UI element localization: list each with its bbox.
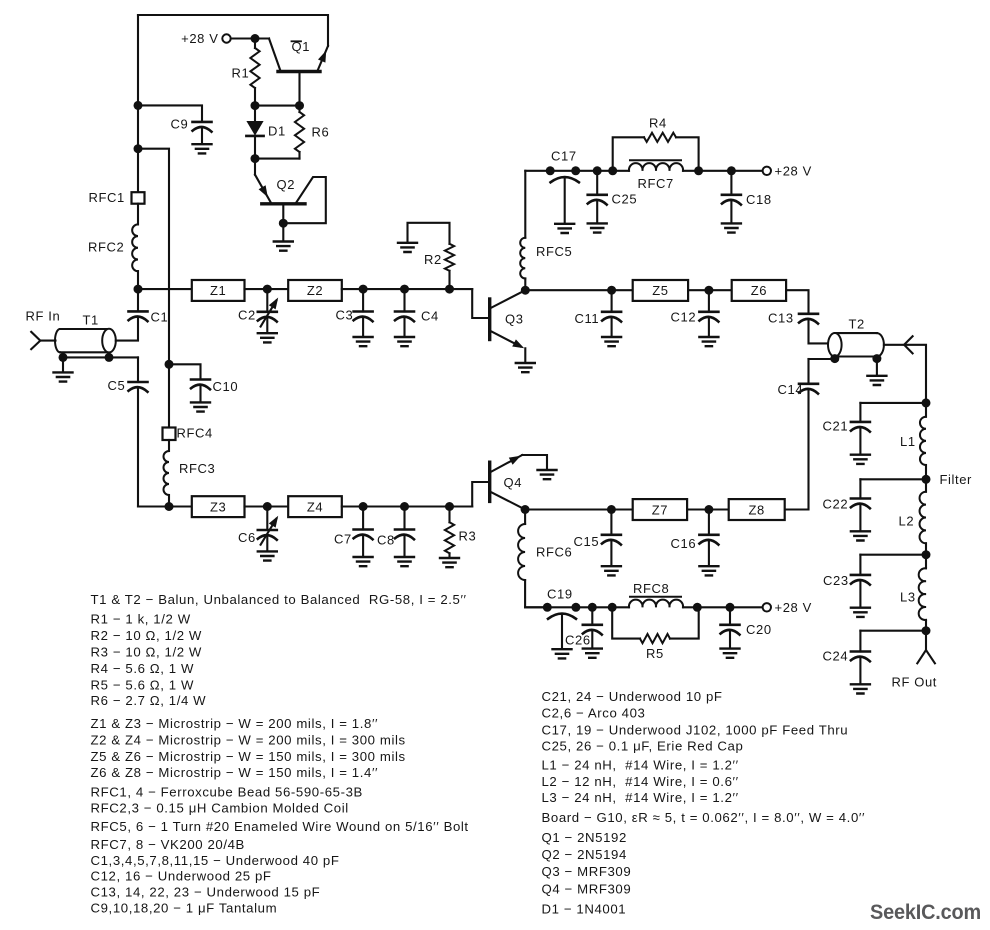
svg-text:C4: C4 xyxy=(421,309,439,324)
svg-text:C26: C26 xyxy=(565,633,591,648)
svg-text:L2: L2 xyxy=(899,514,915,529)
svg-text:Z5: Z5 xyxy=(652,283,668,298)
svg-text:Q4: Q4 xyxy=(504,475,523,490)
svg-text:L3 − 24 nH, #14 Wire, I = 1.2: L3 − 24 nH, #14 Wire, I = 1.2′′ xyxy=(542,790,739,805)
svg-text:Z6 & Z8 − Microstrip − W = 150: Z6 & Z8 − Microstrip − W = 150 mils, I =… xyxy=(91,765,379,780)
svg-text:Z5 & Z6 − Microstrip − W = 150: Z5 & Z6 − Microstrip − W = 150 mils, I =… xyxy=(91,749,406,764)
svg-text:+28 V: +28 V xyxy=(775,164,812,179)
svg-text:RFC3: RFC3 xyxy=(179,461,215,476)
svg-text:R5: R5 xyxy=(646,646,664,661)
svg-text:C11: C11 xyxy=(575,311,600,326)
svg-text:RFC1: RFC1 xyxy=(89,190,125,205)
svg-text:C20: C20 xyxy=(746,622,772,637)
svg-text:R4: R4 xyxy=(649,116,667,131)
svg-text:C9,10,18,20 − 1 μF Tantalum: C9,10,18,20 − 1 μF Tantalum xyxy=(91,901,278,916)
svg-text:L1 − 24 nH, #14 Wire, I = 1.2: L1 − 24 nH, #14 Wire, I = 1.2′′ xyxy=(542,758,739,773)
svg-text:R5 − 5.6 Ω, 1 W: R5 − 5.6 Ω, 1 W xyxy=(91,677,195,692)
svg-text:C5: C5 xyxy=(108,378,126,393)
svg-text:Q2 − 2N5194: Q2 − 2N5194 xyxy=(542,847,627,862)
svg-text:R2: R2 xyxy=(424,252,442,267)
svg-text:Z2 & Z4 − Microstrip − W = 200: Z2 & Z4 − Microstrip − W = 200 mils, I =… xyxy=(91,733,406,748)
svg-text:C10: C10 xyxy=(213,379,239,394)
svg-text:RF Out: RF Out xyxy=(892,675,938,690)
svg-text:C24: C24 xyxy=(823,649,849,664)
svg-text:C23: C23 xyxy=(823,573,849,588)
svg-text:L1: L1 xyxy=(900,434,916,449)
svg-text:D1: D1 xyxy=(268,124,286,139)
svg-text:R1 − 1 k, 1/2 W: R1 − 1 k, 1/2 W xyxy=(91,611,191,626)
svg-text:Z8: Z8 xyxy=(749,502,765,517)
svg-text:R2 − 10 Ω, 1/2 W: R2 − 10 Ω, 1/2 W xyxy=(91,628,202,643)
svg-text:C2: C2 xyxy=(238,308,256,323)
svg-text:L2 − 12 nH, #14 Wire, I = 0.6: L2 − 12 nH, #14 Wire, I = 0.6′′ xyxy=(542,774,739,789)
svg-text:C6: C6 xyxy=(238,530,256,545)
svg-text:Z1 & Z3 − Microstrip − W = 200: Z1 & Z3 − Microstrip − W = 200 mils, I =… xyxy=(91,716,379,731)
svg-text:T1: T1 xyxy=(83,313,99,328)
svg-text:D1 − 1N4001: D1 − 1N4001 xyxy=(542,901,627,916)
svg-text:C7: C7 xyxy=(334,532,352,547)
svg-text:C3: C3 xyxy=(336,308,354,323)
svg-text:Z4: Z4 xyxy=(307,499,323,514)
svg-text:C19: C19 xyxy=(547,587,573,602)
svg-text:T2: T2 xyxy=(849,317,865,332)
svg-text:R6: R6 xyxy=(312,125,330,140)
svg-text:C2,6 − Arco 403: C2,6 − Arco 403 xyxy=(542,706,646,721)
svg-text:C17, 19 − Underwood J102, 1000: C17, 19 − Underwood J102, 1000 pF Feed T… xyxy=(542,722,849,737)
svg-text:R3 − 10 Ω, 1/2 W: R3 − 10 Ω, 1/2 W xyxy=(91,644,202,659)
svg-text:R4 − 5.6 Ω, 1 W: R4 − 5.6 Ω, 1 W xyxy=(91,661,195,676)
svg-text:RFC1, 4 − Ferroxcube Bead 56-5: RFC1, 4 − Ferroxcube Bead 56-590-65-3B xyxy=(91,785,363,800)
svg-text:C13, 14, 22, 23 − Underwood 15: C13, 14, 22, 23 − Underwood 15 pF xyxy=(91,885,321,900)
svg-text:SeekIC.com: SeekIC.com xyxy=(870,900,981,924)
svg-text:Z7: Z7 xyxy=(652,502,668,517)
svg-text:RFC7, 8 − VK200 20/4B: RFC7, 8 − VK200 20/4B xyxy=(91,837,245,852)
svg-text:C16: C16 xyxy=(671,536,697,551)
svg-text:+28 V: +28 V xyxy=(775,600,812,615)
svg-text:C9: C9 xyxy=(171,117,189,132)
svg-text:Z6: Z6 xyxy=(751,283,767,298)
svg-text:RFC8: RFC8 xyxy=(633,581,669,596)
svg-text:C21: C21 xyxy=(823,419,849,434)
svg-text:R1: R1 xyxy=(232,66,250,81)
svg-text:RF In: RF In xyxy=(26,309,61,324)
svg-text:T1 & T2 − Balun, Unbalanced to: T1 & T2 − Balun, Unbalanced to Balanced … xyxy=(91,592,467,607)
svg-text:R3: R3 xyxy=(459,529,477,544)
svg-text:C1,3,4,5,7,8,11,15 − Underwood: C1,3,4,5,7,8,11,15 − Underwood 40 pF xyxy=(91,853,340,868)
svg-text:Q3: Q3 xyxy=(505,312,524,327)
svg-text:RFC2: RFC2 xyxy=(88,240,124,255)
svg-text:Filter: Filter xyxy=(940,472,973,487)
svg-text:C17: C17 xyxy=(551,149,577,164)
svg-text:C8: C8 xyxy=(377,533,395,548)
svg-text:C15: C15 xyxy=(574,534,600,549)
svg-text:C12: C12 xyxy=(671,310,697,325)
svg-text:C13: C13 xyxy=(768,311,794,326)
svg-text:RFC7: RFC7 xyxy=(638,176,674,191)
svg-text:Q2: Q2 xyxy=(277,177,296,192)
svg-text:Z2: Z2 xyxy=(307,283,323,298)
svg-text:C25: C25 xyxy=(612,192,638,207)
svg-text:C1: C1 xyxy=(151,310,169,325)
svg-text:+28 V: +28 V xyxy=(181,31,218,46)
svg-text:R6 − 2.7 Ω, 1/4 W: R6 − 2.7 Ω, 1/4 W xyxy=(91,693,207,708)
svg-text:Board − G10, εR ≈ 5, t = 0.062: Board − G10, εR ≈ 5, t = 0.062′′, I = 8.… xyxy=(542,810,866,825)
svg-text:C25, 26 − 0.1 μF, Erie Red Cap: C25, 26 − 0.1 μF, Erie Red Cap xyxy=(542,739,744,754)
svg-text:RFC4: RFC4 xyxy=(177,426,213,441)
svg-text:Q3 − MRF309: Q3 − MRF309 xyxy=(542,864,632,879)
svg-text:Z1: Z1 xyxy=(210,283,226,298)
svg-text:C14: C14 xyxy=(778,382,804,397)
svg-text:C12, 16 − Underwood 25 pF: C12, 16 − Underwood 25 pF xyxy=(91,869,272,884)
svg-text:C21, 24 − Underwood 10 pF: C21, 24 − Underwood 10 pF xyxy=(542,689,723,704)
svg-text:Q4 − MRF309: Q4 − MRF309 xyxy=(542,881,632,896)
svg-text:Z3: Z3 xyxy=(210,499,226,514)
svg-text:C18: C18 xyxy=(746,192,772,207)
svg-text:RFC6: RFC6 xyxy=(536,545,572,560)
svg-text:RFC5: RFC5 xyxy=(536,244,572,259)
svg-text:C22: C22 xyxy=(823,497,849,512)
svg-text:RFC2,3 − 0.15 μH Cambion Molde: RFC2,3 − 0.15 μH Cambion Molded Coil xyxy=(91,801,349,816)
svg-text:Q1 − 2N5192: Q1 − 2N5192 xyxy=(542,830,627,845)
svg-text:RFC5, 6 − 1 Turn #20 Enameled: RFC5, 6 − 1 Turn #20 Enameled Wire Wound… xyxy=(91,819,469,834)
svg-text:L3: L3 xyxy=(900,590,916,605)
